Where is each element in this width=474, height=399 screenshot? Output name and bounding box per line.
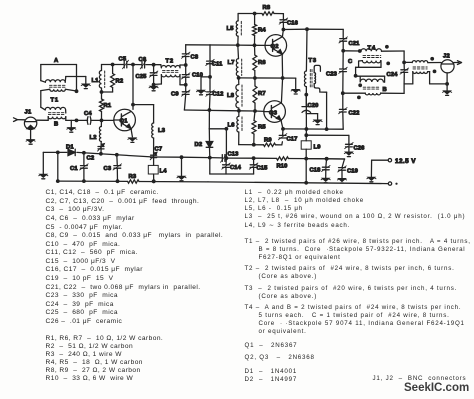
svg-text:C16: C16 bbox=[287, 21, 299, 27]
wire C18/C19 rail bbox=[306, 157, 344, 161]
ground (C20) bbox=[313, 120, 322, 125]
ground (Q1 emitter) bbox=[128, 138, 137, 143]
capacitor C19 bbox=[338, 159, 359, 178]
wire bottom ground rail bbox=[56, 152, 388, 184]
wire J1 to T1 winding B bbox=[37, 119, 49, 121]
capacitor C23 bbox=[326, 51, 347, 95]
ground (mid rail) bbox=[177, 157, 186, 181]
svg-text:C12: C12 bbox=[213, 92, 224, 98]
svg-text:C6: C6 bbox=[139, 57, 147, 63]
svg-text:R1: R1 bbox=[104, 103, 112, 109]
capacitor C12 bbox=[206, 90, 224, 97]
svg-text:C1: C1 bbox=[70, 166, 78, 172]
wire L9 column to bottom rail bbox=[305, 159, 307, 183]
diode D1 bbox=[66, 145, 75, 156]
svg-text:C14: C14 bbox=[230, 165, 242, 171]
svg-text:C22: C22 bbox=[349, 111, 360, 117]
wire top rail R8 bbox=[238, 12, 257, 16]
svg-text:C19: C19 bbox=[347, 169, 359, 175]
junction T1 secondary bbox=[75, 89, 79, 93]
svg-text:L7: L7 bbox=[228, 60, 235, 66]
capacitor C1 bbox=[70, 153, 88, 183]
transistor Q2 bbox=[265, 30, 287, 78]
wire Q1 collector bbox=[131, 65, 135, 110]
svg-text:R4: R4 bbox=[258, 28, 266, 34]
capacitor C4 bbox=[84, 111, 102, 124]
svg-text:J2: J2 bbox=[443, 54, 450, 60]
capacitor C21 bbox=[339, 37, 360, 53]
svg-text:L9: L9 bbox=[314, 145, 322, 151]
capacitor C13 label bbox=[228, 152, 240, 158]
ground (J2) bbox=[443, 91, 452, 96]
node A label bbox=[54, 58, 59, 64]
svg-text:A: A bbox=[54, 58, 59, 64]
svg-text:R6: R6 bbox=[258, 60, 266, 66]
inductor L2 bbox=[90, 120, 102, 141]
ground (J1) bbox=[26, 140, 35, 145]
svg-text:L4: L4 bbox=[160, 169, 168, 175]
connector J1 bbox=[14, 110, 37, 140]
capacitor C22 bbox=[339, 93, 360, 129]
inductor L6 bbox=[228, 111, 243, 145]
wire T1 to C4 bbox=[66, 119, 86, 128]
parts list right column bbox=[245, 189, 344, 196]
capacitor C10 bbox=[181, 73, 203, 80]
svg-text:C23: C23 bbox=[326, 72, 338, 78]
ground (12.5V) bbox=[367, 177, 376, 182]
svg-text:C18: C18 bbox=[310, 168, 322, 174]
capacitor C16 bbox=[279, 14, 299, 32]
ground (C19) bbox=[337, 178, 346, 183]
ground (C18) bbox=[321, 178, 330, 183]
capacitor C15 bbox=[249, 158, 268, 174]
resistor R8 bbox=[257, 5, 283, 15]
wire C26 branch bbox=[306, 135, 349, 144]
wire C12 to D2 branch bbox=[209, 127, 228, 158]
wire collector to L3 bbox=[133, 104, 154, 106]
svg-text:R9: R9 bbox=[264, 138, 272, 144]
svg-text:C11: C11 bbox=[212, 62, 223, 68]
capacitor C6 bbox=[139, 57, 147, 69]
svg-text:C5: C5 bbox=[119, 57, 127, 63]
connector J2 bbox=[441, 54, 462, 91]
parts list left column bbox=[46, 189, 159, 196]
transistor Q1 bbox=[102, 109, 136, 137]
inductor L4 ferrite beads bbox=[148, 165, 167, 183]
resistor R3 label bbox=[129, 174, 137, 180]
capacitor C14 bbox=[222, 158, 242, 174]
supply 12.5 V bbox=[371, 158, 416, 177]
inductor L3 bbox=[152, 105, 166, 153]
svg-text:L5: L5 bbox=[227, 26, 235, 32]
terminal negative bbox=[388, 182, 397, 185]
svg-text:R10: R10 bbox=[277, 164, 288, 170]
wire T3 primary down bbox=[305, 95, 307, 129]
svg-text:R2: R2 bbox=[116, 79, 124, 85]
wire mid rail C13 bbox=[154, 154, 345, 163]
svg-text:C15: C15 bbox=[257, 166, 269, 172]
svg-text:C8: C8 bbox=[191, 55, 199, 61]
svg-text:C13: C13 bbox=[228, 152, 240, 158]
resistor R6 bbox=[253, 45, 267, 80]
wire Q2 emitter rail bbox=[239, 76, 296, 89]
capacitor C8 bbox=[181, 52, 199, 60]
ground (C26) bbox=[344, 152, 353, 157]
capacitor C11 bbox=[206, 59, 223, 67]
inductor L1 bbox=[92, 65, 105, 93]
svg-text:C: C bbox=[348, 59, 353, 65]
svg-text:12.5 V: 12.5 V bbox=[395, 158, 416, 165]
svg-text:J1: J1 bbox=[25, 110, 32, 116]
svg-text:R3: R3 bbox=[129, 174, 137, 180]
inductor L5 bbox=[227, 14, 242, 46]
capacitor C5 bbox=[119, 57, 129, 69]
ground (D1 rail) bbox=[39, 174, 48, 179]
resistor R7 bbox=[253, 78, 266, 113]
transformer T1 bbox=[41, 65, 86, 128]
svg-text:L6: L6 bbox=[228, 123, 236, 129]
wire C11/C12 column bbox=[208, 45, 212, 129]
inductor L7 bbox=[228, 45, 242, 80]
svg-text:D2: D2 bbox=[195, 142, 203, 148]
diode D2 bbox=[195, 129, 213, 158]
transformer T2 bbox=[154, 59, 186, 85]
svg-text:C24: C24 bbox=[387, 72, 399, 78]
capacitor C7 feed-through bbox=[150, 147, 162, 166]
svg-text:L2: L2 bbox=[90, 135, 97, 141]
wire Q3 emitter rail bbox=[283, 127, 343, 131]
resistor R4 bbox=[253, 14, 267, 46]
capacitor C24 bbox=[387, 51, 409, 93]
inductor L8 bbox=[227, 78, 242, 113]
resistor R5 bbox=[252, 111, 267, 147]
transistor Q3 bbox=[264, 78, 286, 129]
capacitor C2 feed-through bbox=[87, 142, 105, 162]
svg-text:C3: C3 bbox=[104, 166, 112, 172]
wire D1 rail bbox=[43, 151, 153, 174]
capacitor C9 bbox=[171, 90, 190, 98]
wire top rail C5/C6 bbox=[102, 63, 161, 67]
capacitor C20 bbox=[302, 95, 318, 120]
wire C16 to C21 column bbox=[283, 27, 343, 38]
resistor R1 bbox=[100, 92, 112, 122]
svg-text:C9: C9 bbox=[171, 92, 179, 98]
resistor R9 bbox=[264, 138, 283, 147]
transformer T4 bbox=[343, 45, 404, 99]
svg-text:C26: C26 bbox=[354, 146, 366, 152]
inductor L9 ferrite beads bbox=[301, 129, 321, 159]
wire L6/R5 bottom bbox=[239, 144, 264, 146]
svg-text:T3: T3 bbox=[309, 58, 317, 64]
ground (T1 loop A) bbox=[81, 84, 90, 89]
svg-text:B: B bbox=[54, 122, 58, 128]
capacitor C3 bbox=[104, 155, 122, 183]
svg-text:C25: C25 bbox=[136, 74, 148, 80]
wire C14/C15 bottom bar bbox=[210, 158, 254, 174]
ground (B winding) bbox=[67, 128, 76, 133]
ground (C25) bbox=[149, 86, 158, 91]
transformer T3 bbox=[304, 29, 326, 129]
wire C11 midpoint to ground bbox=[201, 77, 210, 90]
svg-text:R8: R8 bbox=[263, 5, 271, 11]
svg-text:L1: L1 bbox=[92, 78, 100, 84]
SeekIC.com logo bbox=[404, 382, 469, 394]
svg-text:L8: L8 bbox=[227, 93, 235, 99]
output choke bbox=[404, 57, 449, 86]
ground (C11/C12) bbox=[196, 90, 205, 95]
svg-text:B: B bbox=[383, 87, 387, 93]
svg-text:T2: T2 bbox=[166, 59, 174, 65]
svg-text:C21: C21 bbox=[349, 41, 361, 47]
capacitor C26 bbox=[345, 143, 366, 152]
svg-text:C2: C2 bbox=[87, 156, 95, 162]
svg-text:C17: C17 bbox=[287, 137, 298, 143]
wire Q2 base rail bbox=[186, 43, 265, 47]
capacitor C17 bbox=[278, 127, 297, 143]
wire C8 column bbox=[184, 45, 188, 110]
resistor R10 label bbox=[277, 164, 288, 170]
svg-text:C7: C7 bbox=[155, 147, 163, 153]
ground (Q2 emitter) bbox=[291, 89, 300, 94]
svg-text:T1: T1 bbox=[51, 98, 59, 104]
capacitor C18 bbox=[310, 159, 331, 178]
svg-text:R7: R7 bbox=[258, 91, 266, 97]
svg-text:L3: L3 bbox=[158, 128, 166, 134]
svg-text:R5: R5 bbox=[258, 125, 266, 131]
wire Q3 base rail bbox=[184, 110, 263, 111]
capacitor C25 bbox=[136, 65, 158, 87]
resistor R2 bbox=[100, 65, 124, 94]
